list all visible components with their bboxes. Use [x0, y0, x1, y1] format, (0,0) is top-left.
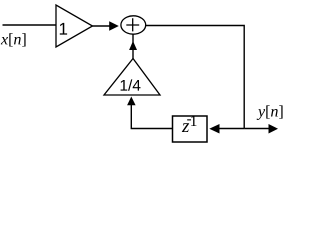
node y[n] label [257, 105, 283, 120]
arrowhead into summing junction (left) [109, 21, 119, 31]
arrowhead into 1/4 gain triangle (pointing up) [127, 97, 136, 106]
arrowhead into delay box (pointing left) [209, 124, 219, 134]
value label 1/4 [121, 79, 141, 90]
wire bottom junction to delay box [219, 128, 244, 130]
delay block z^-1 [173, 116, 208, 142]
summing junction U1 (adder ellipse) [121, 16, 146, 34]
gain block K1 (triangle, gain 1) [56, 5, 93, 47]
wire gain triangle to summing junction [93, 25, 111, 27]
wire input x[n] to gain triangle [3, 24, 57, 26]
arrowhead output y[n] [269, 124, 279, 134]
plus sign of adder [126, 18, 139, 31]
wire 1/4 triangle apex up to adder bottom [132, 34, 134, 58]
wire bottom junction to output arrow [244, 128, 269, 130]
node x[n] label [1, 33, 26, 46]
wire adder output to top-right corner and down [146, 26, 245, 129]
value label z^-1 [182, 116, 197, 132]
value label 1 [60, 23, 67, 35]
wire delay box to feedback riser [131, 100, 172, 129]
gain block K2 (triangle, gain 1/4) [104, 59, 160, 96]
arrowhead into adder bottom (pointing up) [129, 41, 137, 50]
